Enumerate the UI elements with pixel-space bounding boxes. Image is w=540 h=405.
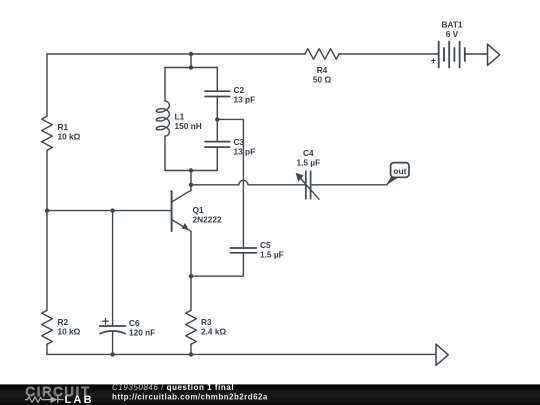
- svg-text:10 kΩ: 10 kΩ: [58, 326, 81, 336]
- svg-text:120 nF: 120 nF: [129, 328, 155, 338]
- wire bottom rail: [47, 353, 436, 355]
- svg-text:R2: R2: [58, 317, 69, 327]
- svg-text:C19350846 / question 1 final: C19350846 / question 1 final: [112, 383, 234, 392]
- svg-text:+: +: [431, 56, 436, 66]
- svg-text:out: out: [393, 166, 406, 176]
- svg-text:1.5 µF: 1.5 µF: [260, 249, 284, 259]
- wire left rail middle: [46, 150, 48, 310]
- wire battery to flag: [465, 53, 488, 55]
- out flag box: [391, 163, 409, 178]
- wire tank top stub: [190, 54, 192, 68]
- capacitor C5: [230, 248, 256, 253]
- resistor R2: [42, 310, 53, 344]
- wire C2 to C3: [216, 97, 218, 142]
- svg-text:C3: C3: [234, 137, 245, 147]
- junction node R3 bottom: [189, 352, 193, 356]
- wire L1 branch upper: [164, 68, 166, 102]
- junction node tank top: [189, 65, 193, 69]
- svg-text:http://circuitlab.com/chmbn2b2: http://circuitlab.com/chmbn2b2rd62a: [112, 392, 268, 401]
- wire tank top: [165, 67, 217, 69]
- junction node emitter C5: [189, 274, 193, 278]
- wire left rail lower: [46, 344, 48, 354]
- battery BAT1: [439, 42, 465, 68]
- wire tap midpoint to C5 column: [217, 119, 243, 248]
- svg-text:150 nH: 150 nH: [175, 121, 202, 131]
- node flag bottom right: [436, 344, 448, 365]
- wire tank bottom: [165, 170, 217, 172]
- wire L1 branch lower: [164, 136, 166, 170]
- junction node top rail: [189, 52, 193, 56]
- wire top rail left segment: [47, 53, 305, 55]
- junction node tank bottom: [189, 168, 193, 172]
- svg-text:C4: C4: [303, 148, 314, 158]
- wire C5 bottom to emitter node: [191, 253, 243, 276]
- wire left rail upper: [46, 54, 48, 116]
- svg-text:R1: R1: [58, 122, 69, 132]
- svg-text:R3: R3: [201, 317, 212, 327]
- svg-text:R4: R4: [317, 65, 328, 75]
- junction node C6 top: [110, 208, 114, 212]
- logo diode: [51, 396, 58, 403]
- capacitor C4 variable: [306, 171, 311, 199]
- capacitor C2: [205, 91, 230, 96]
- wire collector vertical: [190, 171, 192, 191]
- junction node collector: [189, 183, 193, 187]
- wire C6 branch upper: [112, 211, 114, 326]
- resistor R3: [186, 310, 197, 344]
- wire emitter vertical: [190, 231, 192, 310]
- svg-text:C2: C2: [234, 85, 245, 95]
- wire C6 lower: [112, 332, 114, 354]
- wire collector out with hop: [191, 180, 306, 184]
- svg-text:Q1: Q1: [193, 205, 204, 215]
- wire C3 to tank bottom: [216, 147, 218, 170]
- inductor L1: [165, 101, 169, 136]
- svg-text:C6: C6: [129, 318, 140, 328]
- junction node C6 bottom: [110, 352, 114, 356]
- svg-text:LAB: LAB: [65, 394, 94, 405]
- plus polarity mark C6: [103, 319, 108, 324]
- transistor Q1: [172, 191, 191, 232]
- svg-text:BAT1: BAT1: [441, 19, 462, 29]
- svg-text:13 pF: 13 pF: [234, 147, 256, 157]
- resistor R4: [305, 49, 339, 60]
- logo resistor zigzag: [25, 397, 51, 402]
- wire C2 branch upper: [216, 68, 218, 92]
- resistor R1: [42, 116, 53, 150]
- svg-text:10 kΩ: 10 kΩ: [58, 131, 81, 141]
- junction node base left rail: [45, 208, 49, 212]
- out flag tail: [387, 177, 400, 185]
- svg-text:2.4 kΩ: 2.4 kΩ: [201, 326, 226, 336]
- wire R4 to battery: [339, 53, 439, 55]
- footer bar: [0, 384, 540, 405]
- svg-text:13 pF: 13 pF: [234, 95, 256, 105]
- node flag top right: [488, 44, 500, 65]
- capacitor C6 polarized: [100, 326, 126, 334]
- capacitor C3: [205, 142, 230, 148]
- junction node C2 C3 midpoint: [215, 117, 219, 121]
- wire R3 to bottom rail: [190, 344, 192, 354]
- wire C4 to out flag: [311, 184, 387, 186]
- svg-text:1.5 µF: 1.5 µF: [296, 157, 320, 167]
- svg-text:L1: L1: [175, 111, 185, 121]
- wire base: [47, 210, 171, 212]
- svg-text:6 V: 6 V: [446, 29, 459, 39]
- svg-text:50 Ω: 50 Ω: [313, 75, 332, 85]
- svg-text:C5: C5: [260, 240, 271, 250]
- svg-text:2N2222: 2N2222: [193, 214, 222, 224]
